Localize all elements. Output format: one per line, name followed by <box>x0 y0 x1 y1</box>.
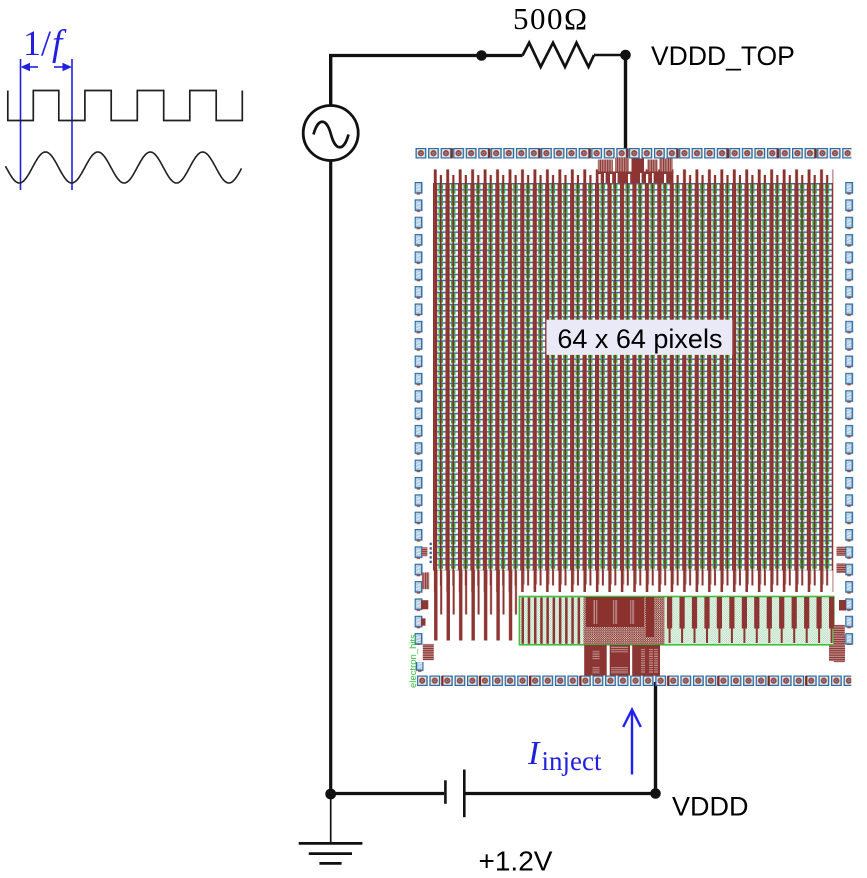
injection row green box <box>519 597 833 645</box>
chip left side blocks <box>416 547 434 673</box>
svg-text:inject: inject <box>542 746 602 776</box>
current arrow I_inject <box>623 710 641 775</box>
label 64 x 64 pixels <box>547 320 733 355</box>
chip right side blocks <box>829 547 846 663</box>
wire <box>465 792 656 795</box>
chip right pad column <box>845 182 853 645</box>
wire <box>654 682 657 794</box>
chip bottom pad row <box>417 676 852 687</box>
svg-text:+1.2V: +1.2V <box>479 846 553 877</box>
left blue dotted marks <box>430 543 432 563</box>
chip pad bars <box>441 148 817 686</box>
sine wave <box>6 152 242 183</box>
injection box left bars <box>522 598 581 644</box>
node VDDD_TOP junction <box>620 50 631 61</box>
wire <box>329 161 332 794</box>
node VDDD junction <box>650 788 661 799</box>
square wave <box>8 91 243 121</box>
svg-text:64 x 64 pixels: 64 x 64 pixels <box>557 324 722 354</box>
wire measurement line left <box>21 59 73 190</box>
svg-text:electron_hits: electron_hits <box>408 634 419 688</box>
node ground junction <box>325 789 336 800</box>
chip top pad row <box>416 148 852 159</box>
chip top bond blocks <box>596 158 673 184</box>
svg-text:VDDD_TOP: VDDD_TOP <box>651 41 795 71</box>
svg-text:1/f: 1/f <box>23 23 67 64</box>
chip left pad column <box>415 182 423 645</box>
resistor R1 500ohm <box>523 43 595 67</box>
chip bottom left long fingers <box>433 571 520 641</box>
chip 64x64 pixel array <box>433 183 833 571</box>
wire <box>331 792 444 795</box>
node junction <box>476 50 487 61</box>
injection box dense center block <box>584 597 665 644</box>
wire <box>594 54 626 57</box>
wire <box>329 56 332 105</box>
AC source V1 <box>303 106 358 161</box>
injection box right bars <box>667 597 834 643</box>
ground <box>330 794 332 843</box>
chip bottom bond blocks <box>584 645 660 676</box>
svg-text:I: I <box>527 735 541 772</box>
svg-text:500Ω: 500Ω <box>513 1 589 36</box>
chip top comb fingers <box>433 169 833 183</box>
wire <box>624 55 627 150</box>
battery BT1 +1.2V <box>444 780 447 804</box>
wire <box>329 54 523 57</box>
svg-text:VDDD: VDDD <box>672 792 749 822</box>
chip bottom dense comb <box>433 571 833 593</box>
